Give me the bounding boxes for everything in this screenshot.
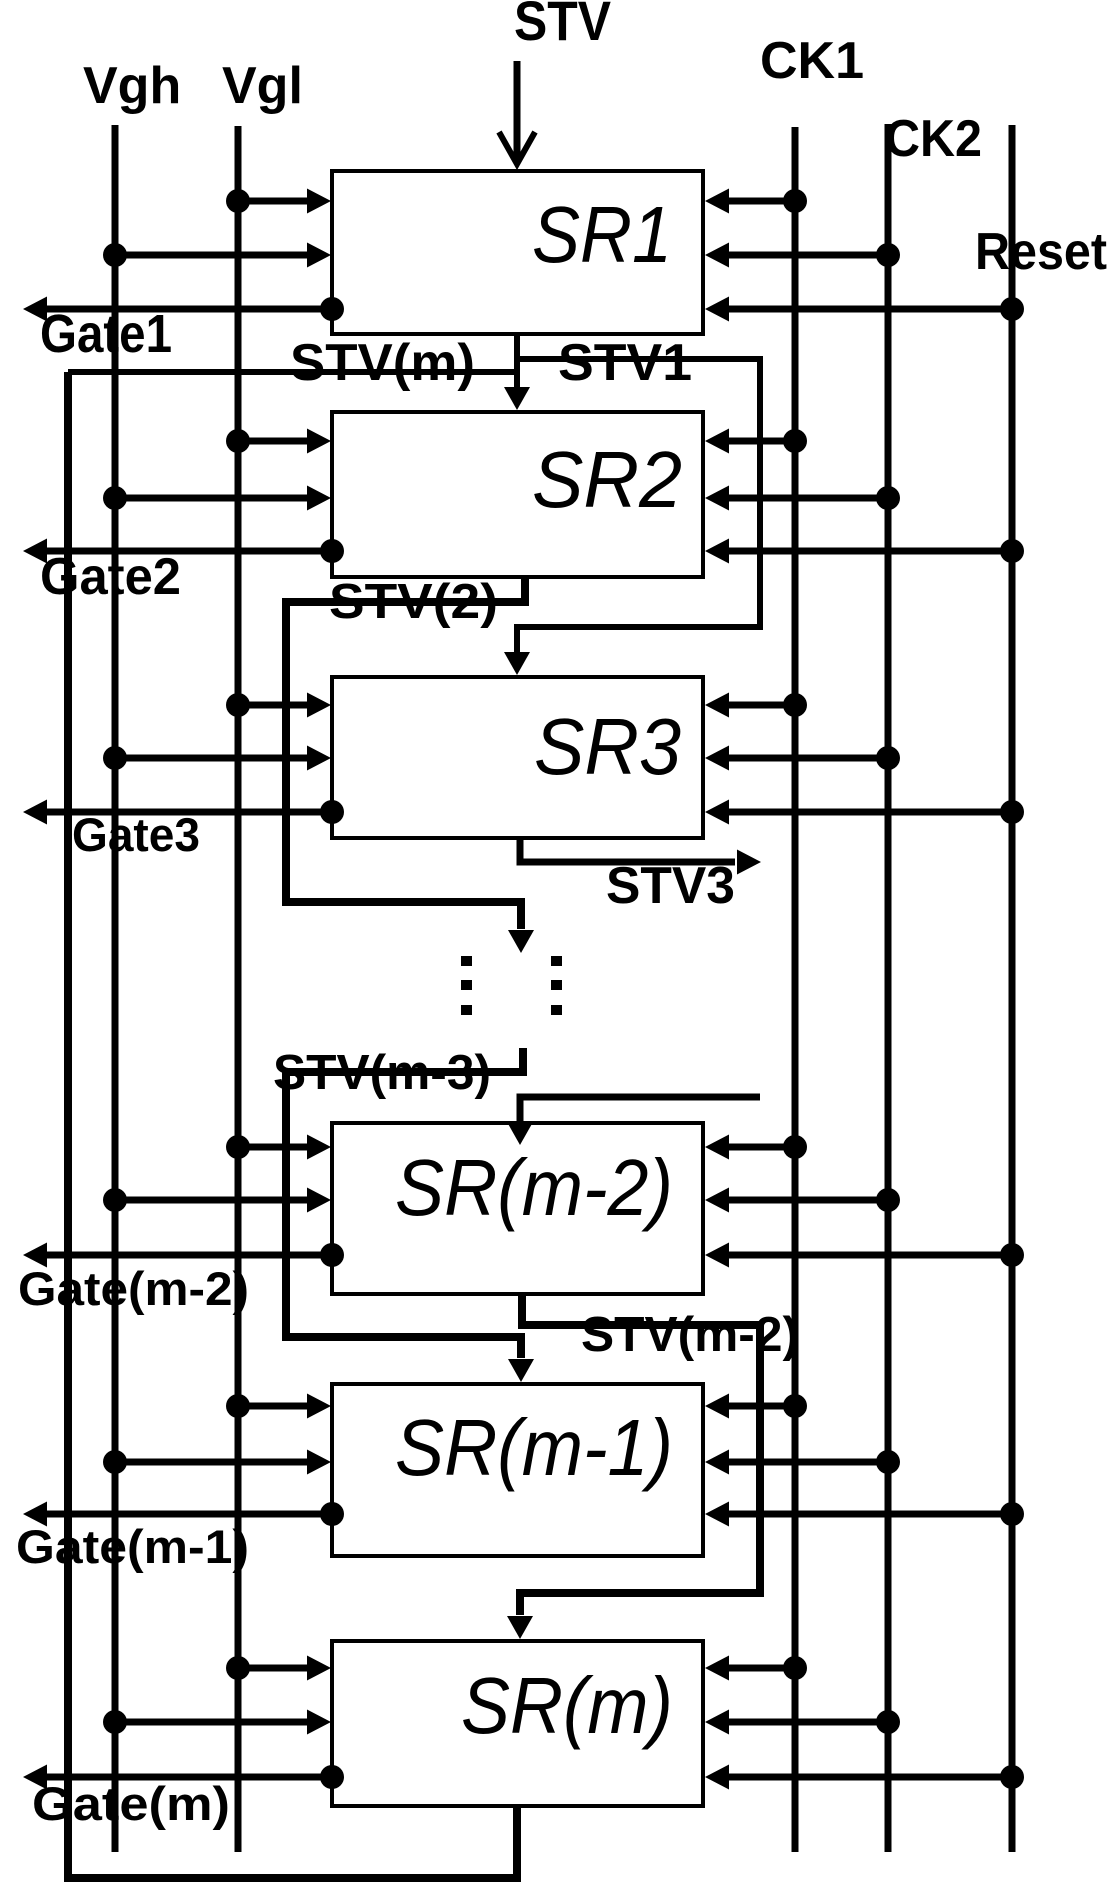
svg-text:SR1: SR1	[532, 190, 672, 279]
wire Vgh bus vertical	[112, 125, 119, 1852]
junction dot Vgl row SRm	[226, 1656, 250, 1680]
wire CK1 to SRm1 pin3	[726, 1403, 795, 1410]
svg-text:Gate3: Gate3	[72, 808, 200, 861]
wire STV3 from SR3 bottom to right	[520, 838, 735, 862]
shift register block SRm	[332, 1641, 703, 1806]
wire CK2 to SRm1 pin4	[726, 1459, 888, 1466]
svg-text:Gate1: Gate1	[40, 304, 172, 364]
wire Vgh to SRm pin2	[115, 1719, 310, 1726]
wire Reset to SRm1 pin5	[726, 1511, 1012, 1518]
junction dot CK2 row SR3	[876, 746, 900, 770]
wire STV(m) horizontal into SR2 node	[68, 369, 517, 375]
junction dot CK1 row SR1	[783, 189, 807, 213]
wire CK1 to SR3 pin3	[726, 702, 795, 709]
wire CK2 to SRm pin4	[726, 1719, 888, 1726]
wire Vgl to SR3 pin1	[238, 702, 310, 709]
shift register block SR3	[332, 677, 703, 838]
wire Gate(m-2) output	[45, 1252, 332, 1259]
junction dot Vgh row SR2	[103, 486, 127, 510]
svg-text:STV(2): STV(2)	[329, 575, 498, 629]
junction dot Vgl row SR3	[226, 693, 250, 717]
wire Vgl to SR1 pin1	[238, 198, 310, 205]
arrow into SR(m-1) top	[508, 1359, 534, 1382]
wire Reset to SR2 pin5	[726, 548, 1012, 555]
wire Vgh to SR2 pin2	[115, 495, 310, 502]
junction dot SRm gate output	[320, 1765, 344, 1789]
wire Vgl to SRm2 pin1	[238, 1144, 310, 1151]
wire Reset to SRm pin5	[726, 1774, 1012, 1781]
junction dot CK1 row SRm2	[783, 1135, 807, 1159]
junction dot Reset row SRm1	[1000, 1502, 1024, 1526]
arrow into SR(m) top	[507, 1616, 533, 1639]
junction dot Vgh row SR3	[103, 746, 127, 770]
wire Gate3 output	[45, 809, 332, 816]
arrow into ellipsis	[508, 930, 534, 953]
wire Gate1 output	[45, 306, 332, 313]
svg-text:SR(m): SR(m)	[461, 1661, 673, 1750]
wire STV1 from SR1 right-down-left to SR3	[517, 359, 760, 652]
wire CK1 to SR2 pin3	[726, 438, 795, 445]
arrow into SR2 top	[504, 387, 530, 410]
svg-text:STV(m-2): STV(m-2)	[581, 1308, 799, 1362]
shift register block SR2	[332, 412, 703, 577]
wire Vgh to SR3 pin2	[115, 755, 310, 762]
wire Vgl to SRm1 pin1	[238, 1403, 310, 1410]
junction dot SRm2 gate output	[320, 1243, 344, 1267]
node STV input arrow	[514, 61, 521, 160]
svg-text:SR3: SR3	[534, 702, 681, 791]
svg-text:STV(m-3): STV(m-3)	[273, 1046, 491, 1100]
shift register block SR1	[332, 171, 703, 334]
junction dot Vgh row SRm1	[103, 1450, 127, 1474]
wire CK1 bus vertical	[792, 127, 799, 1852]
wire CK2 to SR3 pin4	[726, 755, 888, 762]
shift register block SRm2	[332, 1123, 703, 1294]
junction dot Vgh row SRm2	[103, 1188, 127, 1212]
junction dot CK2 row SRm1	[876, 1450, 900, 1474]
wire CK2 to SR2 pin4	[726, 495, 888, 502]
arrow STV3 right	[737, 850, 761, 875]
wire SR1 output to SR2 vertical	[514, 334, 520, 398]
wire Vgh to SR1 pin2	[115, 252, 310, 259]
svg-text:STV3: STV3	[606, 857, 735, 915]
svg-text:Gate(m-2): Gate(m-2)	[18, 1262, 249, 1315]
junction dot Reset row SR3	[1000, 800, 1024, 824]
junction dot SRm1 gate output	[320, 1502, 344, 1526]
svg-text:Gate(m): Gate(m)	[32, 1777, 230, 1830]
wire Vgh to SRm1 pin2	[115, 1459, 310, 1466]
svg-text:SR(m-1): SR(m-1)	[395, 1403, 673, 1492]
junction dot Vgh row SR1	[103, 243, 127, 267]
svg-text:STV1: STV1	[558, 334, 692, 392]
wire CK1 to SRm pin3	[726, 1665, 795, 1672]
wire CK1 to SRm2 pin3	[726, 1144, 795, 1151]
wire Vgl bus vertical	[235, 126, 242, 1852]
wire Vgh to SRm2 pin2	[115, 1197, 310, 1204]
svg-text:Reset: Reset	[975, 223, 1107, 281]
wire CK1 to SR1 pin3	[726, 198, 795, 205]
wire STV(m-2) from SR(m-2) down-right-down-left to SR(m)	[520, 1294, 760, 1615]
junction dot Reset row SRm	[1000, 1765, 1024, 1789]
wire unlabeled feed into SR(m-2) from right	[520, 1097, 760, 1121]
junction dot Reset row SR2	[1000, 539, 1024, 563]
wire Vgl to SR2 pin1	[238, 438, 310, 445]
wire CK2 to SR1 pin4	[726, 252, 888, 259]
wire STV(2) from SR2 down-left-down-right into ellipsis	[286, 577, 525, 929]
wire Gate(m) output	[45, 1774, 332, 1781]
junction dot Vgl row SRm1	[226, 1394, 250, 1418]
wire Reset to SR3 pin5	[726, 809, 1012, 816]
junction dot CK2 row SR2	[876, 486, 900, 510]
junction dot CK2 row SRm	[876, 1710, 900, 1734]
wire CK2 to SRm2 pin4	[726, 1197, 888, 1204]
junction dot SR1 gate output	[320, 297, 344, 321]
svg-text:Vgh: Vgh	[83, 57, 181, 115]
junction dot CK2 row SR1	[876, 243, 900, 267]
wire Reset bus vertical	[1009, 125, 1016, 1852]
wire Gate(m-1) output	[45, 1511, 332, 1518]
svg-text:STV: STV	[514, 0, 611, 52]
junction dot Vgh row SRm	[103, 1710, 127, 1734]
junction dot Vgl row SRm2	[226, 1135, 250, 1159]
svg-text:SR2: SR2	[532, 435, 682, 524]
junction dot CK1 row SR2	[783, 429, 807, 453]
junction dot CK1 row SRm	[783, 1656, 807, 1680]
junction dot Vgl row SR1	[226, 189, 250, 213]
svg-text:Gate2: Gate2	[40, 548, 181, 606]
junction dot CK1 row SRm1	[783, 1394, 807, 1418]
svg-text:Gate(m-1): Gate(m-1)	[16, 1520, 249, 1573]
wire Reset to SR1 pin5	[726, 306, 1012, 313]
svg-text:STV(m): STV(m)	[290, 334, 475, 392]
svg-text:Vgl: Vgl	[222, 57, 303, 115]
junction dot Reset row SR1	[1000, 297, 1024, 321]
shift register block SRm1	[332, 1384, 703, 1556]
junction dot SR3 gate output	[320, 800, 344, 824]
junction dot CK2 row SRm2	[876, 1188, 900, 1212]
wire Vgl to SRm pin1	[238, 1665, 310, 1672]
arrow into SR(m-2) top	[507, 1122, 533, 1145]
svg-text:CK1: CK1	[760, 32, 864, 90]
svg-text:SR(m-2): SR(m-2)	[395, 1143, 673, 1232]
node ellipsis dots	[461, 956, 472, 966]
junction dot SR2 gate output	[320, 539, 344, 563]
wire STV(m-3) from ellipsis down-left-down-right to SR(m-1)	[286, 1048, 523, 1358]
arrow into SR3 top	[504, 652, 530, 675]
wire CK2 bus vertical	[885, 124, 892, 1852]
svg-text:CK2: CK2	[885, 110, 982, 168]
junction dot Vgl row SR2	[226, 429, 250, 453]
wire STV(m) feedback from SR(m) bottom to left edge and up	[68, 372, 517, 1878]
wire Reset to SRm2 pin5	[726, 1252, 1012, 1259]
junction dot CK1 row SR3	[783, 693, 807, 717]
junction dot Reset row SRm2	[1000, 1243, 1024, 1267]
wire Gate2 output	[45, 548, 332, 555]
